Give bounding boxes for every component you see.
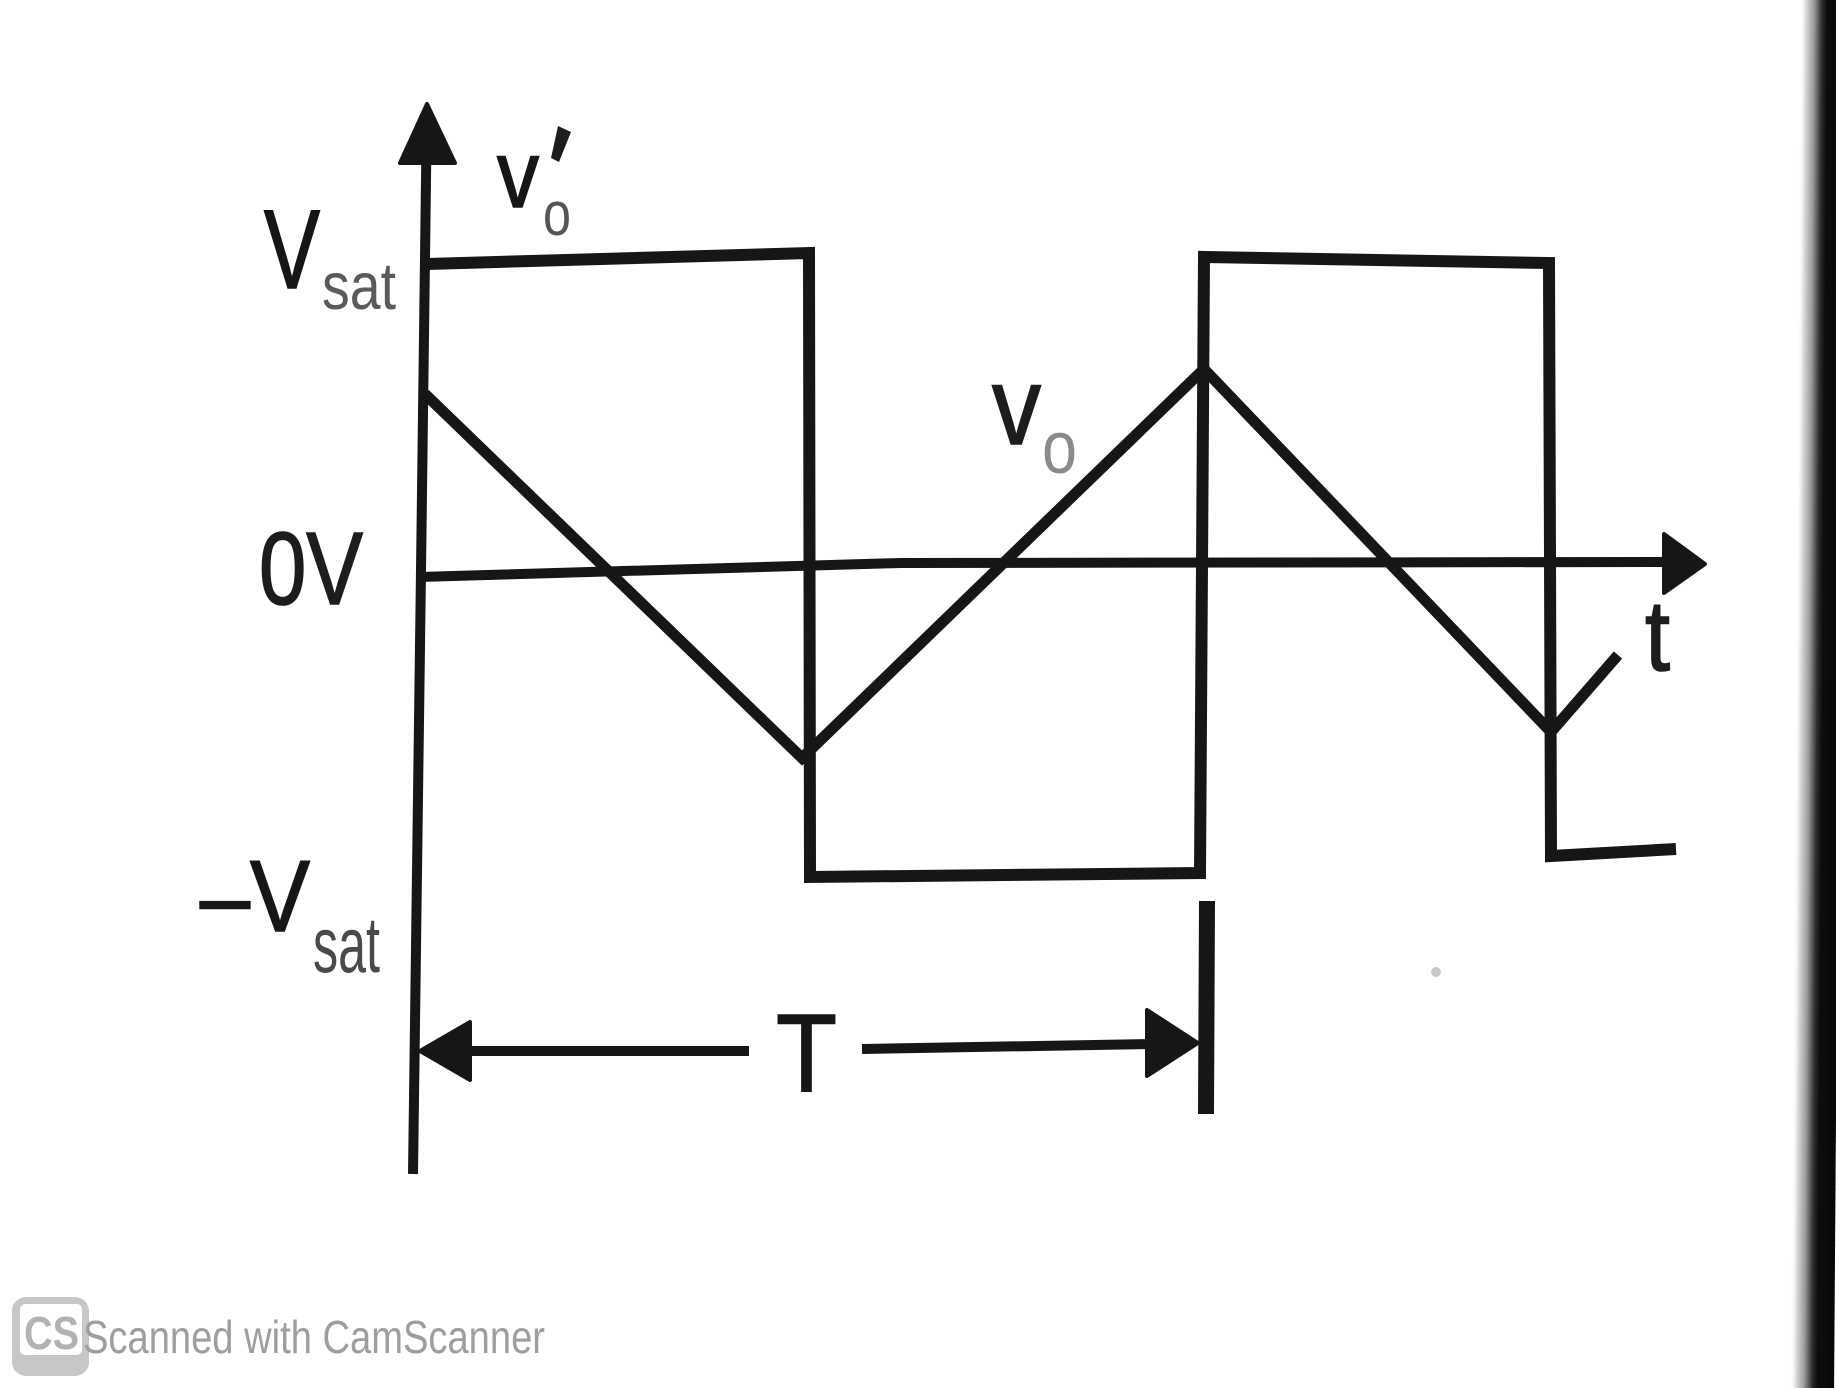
y-axis (vertical axis line) (413, 140, 427, 1174)
svg-text:T: T (776, 992, 837, 1115)
dimension line for period T: left arrowhead (420, 1022, 470, 1080)
svg-text:–V: –V (200, 841, 310, 953)
CamScanner watermark badge (12, 1297, 89, 1376)
svg-text:sat: sat (322, 249, 396, 324)
svg-text:t: t (1645, 580, 1670, 692)
right edge scan shadow band (1790, 0, 1836, 1388)
svg-text:o: o (543, 180, 571, 249)
triangle wave vo (425, 369, 1618, 758)
svg-text:sat: sat (313, 900, 380, 989)
svg-text:CS: CS (24, 1307, 79, 1359)
square wave v'o (427, 253, 1676, 877)
x-axis (0V line) (419, 562, 1668, 577)
svg-text:Scanned with CamScanner: Scanned with CamScanner (83, 1311, 545, 1363)
dimension shaft left segment (468, 1046, 749, 1056)
svg-text:0V: 0V (259, 511, 363, 626)
svg-text:V: V (264, 187, 320, 312)
prime of v'o (551, 126, 571, 162)
y-axis arrowhead (400, 104, 455, 163)
dimension end tick (1206, 901, 1207, 1114)
dimension right arrowhead (1147, 1010, 1198, 1076)
svg-text:v: v (992, 345, 1041, 468)
svg-text:o: o (1042, 406, 1077, 489)
dimension shaft right segment (862, 1044, 1150, 1049)
x-axis arrowhead (1664, 534, 1705, 593)
svg-text:v: v (497, 121, 539, 228)
faint scan speck (1431, 967, 1441, 977)
